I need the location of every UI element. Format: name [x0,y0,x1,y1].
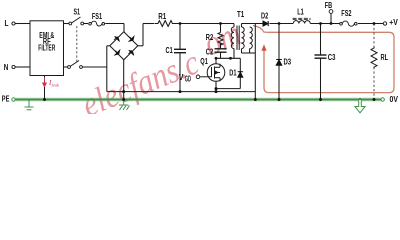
svg-text:RL: RL [381,53,389,62]
svg-text:R1: R1 [158,12,167,21]
svg-text:FS2: FS2 [341,9,352,18]
svg-text:T1: T1 [237,10,245,19]
svg-text:GD: GD [185,75,191,84]
svg-text:C2: C2 [206,47,214,56]
svg-text:Q1: Q1 [200,57,208,66]
svg-text:V: V [179,73,184,82]
svg-text:C3: C3 [328,53,336,62]
svg-text:L: L [5,19,9,28]
svg-text:S1: S1 [74,7,81,16]
svg-text:leak: leak [52,83,60,88]
svg-text:D1: D1 [229,69,237,78]
svg-text:D3: D3 [284,58,292,67]
svg-text:R2: R2 [206,33,214,42]
svg-text:L1: L1 [297,7,304,16]
svg-text:PE: PE [2,95,10,104]
svg-text:C1: C1 [166,46,174,55]
svg-text:FS1: FS1 [92,12,103,21]
svg-text:FILTER: FILTER [38,43,55,52]
svg-text:D2: D2 [261,12,269,21]
svg-text:FB: FB [325,1,333,10]
svg-text:+V: +V [389,18,398,27]
svg-text:0V: 0V [390,95,399,104]
svg-text:N: N [4,63,9,72]
